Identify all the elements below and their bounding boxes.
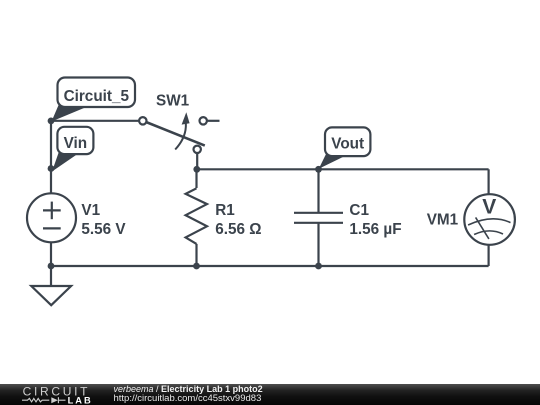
resistor R1 bbox=[186, 188, 207, 244]
node C1 bottom junction bbox=[315, 263, 322, 270]
node Vout junction bbox=[315, 166, 322, 173]
wire bottom rail bbox=[51, 265, 489, 267]
footer bar bbox=[0, 384, 540, 405]
svg-text:R1: R1 bbox=[215, 202, 235, 219]
logo wire + resistor squiggle bbox=[22, 398, 49, 402]
switch SW1 bbox=[139, 112, 219, 153]
svg-text:6.56 Ω: 6.56 Ω bbox=[215, 221, 261, 238]
switch actuation arrow bbox=[175, 123, 186, 150]
wire V1 bottom lead bbox=[50, 242, 52, 266]
switch pole circle bbox=[139, 117, 146, 124]
voltmeter VM1 bbox=[464, 194, 515, 245]
logo diode bbox=[51, 397, 58, 403]
ground bbox=[31, 286, 71, 305]
net label Vin bbox=[52, 127, 93, 172]
wire R1 top lead bbox=[195, 169, 197, 188]
svg-text:V1: V1 bbox=[81, 202, 100, 219]
wire ground stub bbox=[50, 266, 52, 286]
svg-text:Vin: Vin bbox=[64, 135, 88, 152]
CircuitLab logo bbox=[0, 384, 110, 405]
node R1 top junction bbox=[193, 166, 200, 173]
svg-text:1.56 µF: 1.56 µF bbox=[349, 221, 401, 238]
wire VM1 top lead bbox=[488, 169, 490, 194]
switch throw circle bottom bbox=[194, 146, 201, 153]
svg-text:SW1: SW1 bbox=[156, 93, 190, 110]
net label Vout bbox=[319, 127, 371, 168]
net label Circuit_5 bbox=[52, 78, 136, 122]
footer credit line bbox=[114, 384, 263, 394]
wire net Vin top: node to switch pole bbox=[51, 120, 139, 122]
node Vin top junction bbox=[48, 118, 55, 125]
svg-text:V: V bbox=[482, 196, 496, 219]
wire VM1 bottom lead bbox=[488, 245, 490, 266]
node R1 bottom junction bbox=[193, 263, 200, 270]
switch blade bbox=[146, 122, 205, 146]
svg-text:Circuit_5: Circuit_5 bbox=[64, 88, 130, 105]
node ground junction bbox=[48, 263, 55, 270]
svg-text:5.56 V: 5.56 V bbox=[81, 221, 126, 238]
svg-text:Vout: Vout bbox=[331, 136, 364, 153]
wire switch throw to rail bbox=[196, 153, 198, 169]
voltage source V1 bbox=[27, 193, 76, 242]
wire C1 top lead bbox=[317, 169, 319, 213]
svg-text:LAB: LAB bbox=[68, 396, 93, 405]
switch throw stub bbox=[207, 120, 220, 122]
wire R1 bottom lead bbox=[195, 244, 197, 266]
footer url line bbox=[114, 393, 262, 404]
wire net Vin left vertical bbox=[50, 121, 52, 194]
wire C1 bottom lead bbox=[317, 223, 319, 266]
svg-text:VM1: VM1 bbox=[427, 212, 459, 229]
svg-text:C1: C1 bbox=[349, 202, 369, 219]
switch throw circle right bbox=[200, 117, 207, 124]
capacitor C1 bbox=[294, 213, 343, 223]
node Vin label junction bbox=[48, 165, 55, 172]
wire net Vout rail bbox=[197, 168, 489, 170]
